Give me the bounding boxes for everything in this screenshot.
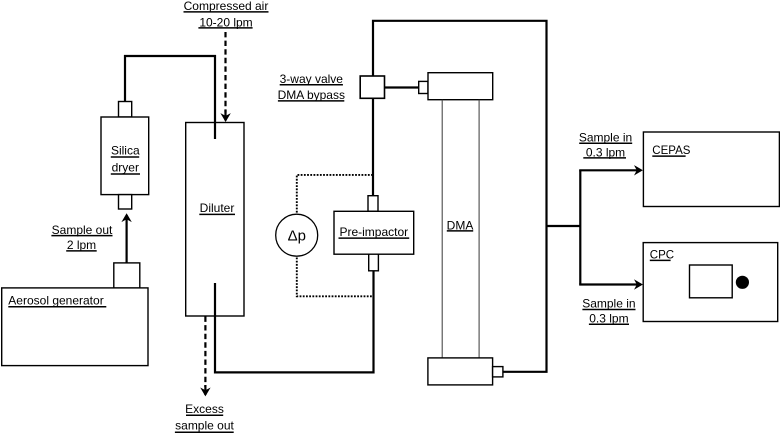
arrowhead: excess out down: [200, 388, 210, 397]
wire: top-left horizontal from silica riser to diluter riser: [124, 55, 216, 57]
wire: riser down into diluter: [214, 55, 216, 139]
DMA bottom box: [428, 358, 493, 385]
CPC box: [643, 243, 778, 322]
svg-text:0.3 lpm: 0.3 lpm: [589, 311, 628, 325]
svg-text:Diluter: Diluter: [200, 201, 235, 215]
3-way valve box: [360, 76, 384, 98]
wire: arrow to CPC: [579, 283, 641, 285]
wire: valve down to pre-impactor: [372, 98, 374, 196]
arrowhead: into CPC: [634, 279, 643, 289]
svg-text:2 lpm: 2 lpm: [67, 238, 96, 252]
wire: diluter output to pre-impactor (down, right, up): [215, 270, 374, 372]
svg-text:Silica: Silica: [111, 144, 140, 158]
svg-text:3-way valve: 3-way valve: [280, 72, 344, 86]
DMA outlet connector: [493, 367, 503, 377]
svg-text:dryer: dryer: [112, 161, 139, 175]
wire: branch from right loop: [547, 225, 581, 227]
DMA top box: [428, 73, 493, 100]
svg-text:Sample in: Sample in: [579, 130, 632, 144]
CEPAS box: [643, 132, 779, 207]
svg-text:Pre-impactor: Pre-impactor: [339, 225, 408, 239]
silica dryer box: [101, 117, 149, 195]
svg-text:Sample out: Sample out: [52, 223, 113, 237]
wire: arrow to CEPAS: [579, 169, 641, 171]
arrowhead: compressed air down: [220, 113, 230, 122]
arrowhead: into CEPAS: [634, 165, 643, 175]
aerosol generator box: [2, 288, 148, 366]
svg-text:sample out: sample out: [175, 418, 234, 432]
DMA body left wall: [441, 100, 443, 358]
wire: bypass loop top and right side: [373, 21, 547, 372]
CPC inner rectangle: [690, 265, 733, 298]
DMA inlet connector: [419, 81, 428, 93]
svg-text:Compressed air: Compressed air: [184, 0, 269, 13]
gauge circle Δp: [276, 214, 318, 256]
svg-text:DMA bypass: DMA bypass: [278, 88, 345, 102]
pre-impactor box: [334, 211, 414, 254]
diluter box: [186, 123, 244, 317]
wire: branch vertical: [579, 170, 581, 284]
wire: arrow up from aerosol generator to silica dryer: [125, 215, 127, 263]
CPC detector dot: [736, 276, 749, 289]
wire: dashed excess sample out: [204, 317, 206, 388]
dotted line: pressure tap top: [297, 175, 373, 213]
arrowhead: up into silica dryer: [121, 213, 131, 222]
pre-impactor bottom connector: [369, 254, 379, 271]
svg-text:Sample in: Sample in: [582, 297, 635, 311]
DMA body right wall: [478, 100, 480, 358]
wire: dashed compressed-air line: [224, 32, 226, 113]
svg-text:Excess: Excess: [185, 402, 224, 416]
svg-text:Δp: Δp: [288, 228, 306, 245]
aerosol generator top connector: [114, 263, 140, 288]
dotted line: pressure tap bottom: [297, 258, 374, 297]
silica dryer bottom connector: [119, 195, 132, 209]
wire: valve to DMA link: [385, 86, 419, 88]
silica dryer top connector: [119, 102, 132, 118]
svg-text:Aerosol generator: Aerosol generator: [8, 294, 103, 308]
wire: down to silica top connector: [124, 55, 126, 102]
pre-impactor top connector: [368, 196, 378, 212]
